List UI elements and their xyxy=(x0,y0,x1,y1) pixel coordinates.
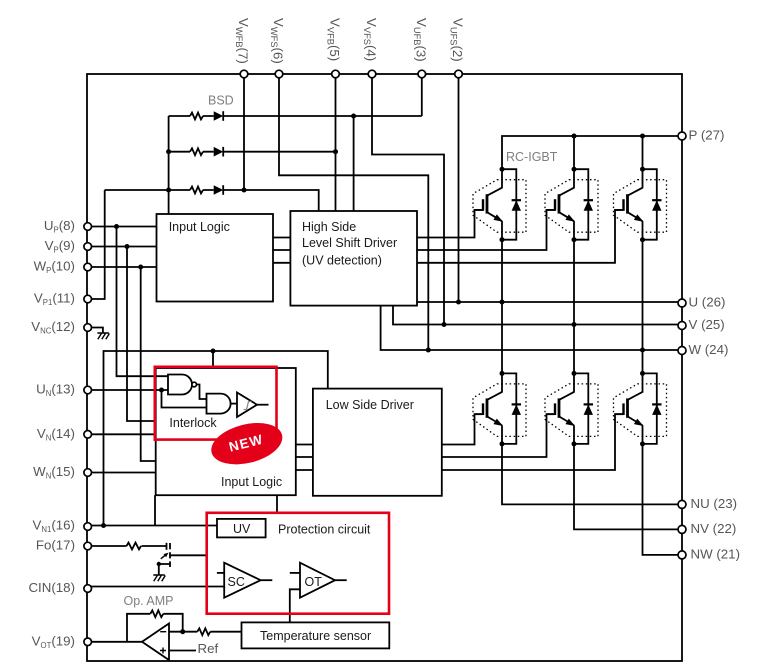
svg-text:UV: UV xyxy=(233,522,251,536)
outer package border xyxy=(87,74,682,661)
wire VP1(11) feed up to BSD rail xyxy=(88,190,105,299)
wire WP(10) to Input Logic xyxy=(88,266,157,268)
junction VUFS on U line xyxy=(456,300,461,305)
wire OT reference stub xyxy=(290,572,300,574)
wire low side gate W xyxy=(442,414,624,470)
wire V phase line to V(25) xyxy=(393,306,682,325)
svg-text:NW (21): NW (21) xyxy=(691,547,741,562)
wire op-amp feedback loop xyxy=(127,614,183,642)
svg-text:Input Logic: Input Logic xyxy=(169,220,230,234)
ground at VNC xyxy=(97,333,109,339)
pin NU(23) xyxy=(678,500,686,508)
block Input Logic (high side) xyxy=(157,214,274,302)
wire U low emitter to NU line xyxy=(502,444,682,505)
comparator SC xyxy=(224,563,260,598)
wire VVFB(5) column to High Side Driver xyxy=(335,74,337,211)
transistor Q2 high-side V RC-IGBT xyxy=(545,167,598,243)
wire WP column down to Input Logic (low) xyxy=(141,267,156,461)
NEW badge xyxy=(207,416,287,471)
comparator OT xyxy=(300,563,335,598)
block High Side Level Shift Driver U1 xyxy=(290,211,417,306)
wire BSD row3 xyxy=(105,190,319,211)
highlight box interlock (red) xyxy=(155,367,277,440)
transistor Q6 low-side W RC-IGBT xyxy=(614,371,667,447)
pin UN(13) xyxy=(84,386,92,394)
wire VN(14) to Input Logic xyxy=(88,433,156,435)
svg-text:U (26): U (26) xyxy=(689,295,726,310)
pin VOT(19) xyxy=(84,638,92,646)
wire VNC(12) to ground xyxy=(88,328,103,334)
pin WN(15) xyxy=(84,469,92,477)
svg-text:Fo(17): Fo(17) xyxy=(36,538,75,553)
wire VWFS(6) column to W phase xyxy=(279,74,428,350)
pin VP(9) xyxy=(84,243,92,251)
wire VWFB(7) column xyxy=(243,74,245,190)
junction WP column xyxy=(138,265,143,270)
svg-text:WN(15): WN(15) xyxy=(33,464,75,481)
pin VWFB(7) xyxy=(240,70,248,78)
svg-text:Temperature sensor: Temperature sensor xyxy=(260,629,371,643)
wire UP(8) to Input Logic xyxy=(88,226,157,228)
pin VN(14) xyxy=(84,431,92,439)
junction BSD rail row2 xyxy=(166,149,171,154)
wire drop to Input Logic top xyxy=(212,351,214,368)
pin P(27) xyxy=(678,132,686,140)
buffer schmitt trigger xyxy=(237,393,257,418)
wire VP column down to Input Logic (low) xyxy=(127,247,156,422)
transistor Q1 high-side U RC-IGBT xyxy=(473,167,526,243)
svg-text:WP(10): WP(10) xyxy=(34,259,75,276)
pin UP(8) xyxy=(84,223,92,231)
junction UN at NAND input xyxy=(159,388,164,393)
wire UN(13) into interlock xyxy=(88,389,168,391)
junction U phase column xyxy=(500,300,505,305)
svg-text:VP1(11): VP1(11) xyxy=(34,291,75,308)
svg-text:P (27): P (27) xyxy=(689,128,725,143)
resistor BSD row3 xyxy=(190,187,203,194)
node BSD rail vertical xyxy=(168,116,170,214)
block Low Side Driver U2 xyxy=(313,389,442,496)
wire W column top xyxy=(642,136,644,169)
gate AND interlock xyxy=(207,394,231,414)
svg-text:VOT(19): VOT(19) xyxy=(32,633,75,650)
pin VN1(16) xyxy=(84,523,92,531)
wire SC output stub xyxy=(261,579,273,581)
resistor op-amp feedback xyxy=(150,610,163,617)
wire VN1 supply rail to Input Logic and Low Side Driver xyxy=(104,351,328,526)
pin VVFB(5) xyxy=(332,70,340,78)
svg-text:RC-IGBT: RC-IGBT xyxy=(506,150,558,164)
block Input Logic (low side) xyxy=(156,368,296,495)
transistor Q4 low-side U RC-IGBT xyxy=(473,371,526,447)
junction BSD rail row3 xyxy=(166,188,171,193)
wire U phase line to U(26) xyxy=(417,301,682,303)
block UV detector xyxy=(217,519,266,538)
transistor Q3 high-side W RC-IGBT xyxy=(614,167,667,243)
wire buffer output stub xyxy=(257,404,269,406)
pin VP1(11) xyxy=(84,295,92,303)
pin VUFS(2) xyxy=(455,70,463,78)
wire P rail xyxy=(502,136,682,169)
junction BSD row2 to VVFB column xyxy=(333,149,338,154)
pin WP(10) xyxy=(84,263,92,271)
svg-text:VP(9): VP(9) xyxy=(45,238,75,255)
wire VN1(16) line to UV xyxy=(88,525,217,527)
pin U(26) xyxy=(678,299,686,307)
junction V phase column xyxy=(572,322,577,327)
gate NAND interlock xyxy=(168,375,197,395)
wire high side gate U xyxy=(417,210,483,238)
pin V(25) xyxy=(678,322,686,330)
resistor op-amp input xyxy=(197,628,210,635)
svg-text:CIN(18): CIN(18) xyxy=(28,580,75,595)
wire V low emitter to NV line xyxy=(574,444,682,530)
svg-text:UN(13): UN(13) xyxy=(36,382,75,399)
wire BSD row2 xyxy=(169,151,336,153)
svg-text:NU (23): NU (23) xyxy=(691,496,738,511)
wire U column mid segments xyxy=(501,240,503,374)
transistor Q5 low-side V RC-IGBT xyxy=(545,371,598,447)
pin NV(22) xyxy=(678,525,686,533)
junction VWFS on W line xyxy=(426,348,431,353)
wire high side gate V xyxy=(417,210,555,250)
wire op-amp inverting input xyxy=(169,631,242,633)
svg-text:OT: OT xyxy=(305,575,323,589)
svg-text:NV (22): NV (22) xyxy=(691,521,737,536)
pin VVFS(4) xyxy=(368,70,376,78)
junction VN1 rail to Input Logic xyxy=(211,349,216,354)
junction op-amp feedback xyxy=(180,629,185,634)
svg-text:SC: SC xyxy=(228,575,245,589)
svg-text:Input Logic: Input Logic xyxy=(221,475,282,489)
wire Input Logic bottom-left leg to VN1 line xyxy=(154,495,156,525)
op-amp U3 xyxy=(142,624,169,661)
wire NAND output to AND xyxy=(197,385,207,400)
wire AND output to buffer xyxy=(231,403,237,405)
transistor M1 Fo open-drain MOSFET xyxy=(157,543,207,575)
pin NW(21) xyxy=(678,551,686,559)
wire OT input from temperature sensor xyxy=(290,589,300,622)
wire CIN(18) to SC comparator xyxy=(88,586,225,588)
svg-text:Ref: Ref xyxy=(198,641,219,656)
svg-text:BSD: BSD xyxy=(208,94,234,108)
wire Input Logic bottom to protection circuit xyxy=(276,495,278,513)
junction UP column xyxy=(114,224,119,229)
junction VP column xyxy=(125,244,130,249)
svg-text:VNC(12): VNC(12) xyxy=(31,319,75,336)
wire VUFS(2) column to U phase xyxy=(458,74,460,302)
svg-text:High Side: High Side xyxy=(302,220,356,234)
wire BSD row1 xyxy=(169,115,422,117)
junction VN1 rail xyxy=(101,523,106,528)
wire WN(15) to Input Logic xyxy=(88,472,156,474)
junction P rail V column xyxy=(572,134,577,139)
wire W column mid segments xyxy=(642,240,644,374)
wire Fo(17) to gate resistor xyxy=(88,545,167,547)
diode BSD row2 xyxy=(214,147,224,157)
diode BSD row3 xyxy=(214,185,224,195)
svg-text:V (25): V (25) xyxy=(689,317,725,332)
pin VUFB(3) xyxy=(418,70,426,78)
wire low side gate U xyxy=(442,414,483,444)
wire VP(9) to Input Logic xyxy=(88,246,157,248)
wire UN branch to AND gate xyxy=(162,390,207,408)
wire op-amp output to VOT(19) xyxy=(88,641,142,643)
wire V column top xyxy=(573,136,575,169)
svg-text:(UV detection): (UV detection) xyxy=(302,254,382,268)
junction BSD row1 to driver xyxy=(351,114,356,119)
wire high side gate W xyxy=(417,210,624,263)
svg-text:Level Shift Driver: Level Shift Driver xyxy=(302,236,397,250)
wire W phase line to W(24) xyxy=(381,306,682,350)
svg-text:Low Side Driver: Low Side Driver xyxy=(326,398,414,412)
wire BSD row1 drop to High Side Driver xyxy=(353,116,355,211)
svg-text:UP(8): UP(8) xyxy=(44,218,75,235)
wire V column mid segments xyxy=(573,240,575,374)
wire VVFS(4) column to V phase xyxy=(372,74,444,325)
svg-text:VN1(16): VN1(16) xyxy=(33,518,76,535)
diode BSD row1 xyxy=(214,111,224,121)
resistor BSD row1 xyxy=(190,113,203,120)
block Temperature sensor xyxy=(242,622,390,648)
pin CIN(18) xyxy=(84,585,92,593)
pin VNC(12) xyxy=(84,324,92,332)
junction VVFS on V line xyxy=(442,322,447,327)
svg-text:Interlock: Interlock xyxy=(169,416,217,430)
pin VWFS(6) xyxy=(275,70,283,78)
pin W(24) xyxy=(678,347,686,355)
wire op-amp non-inverting input to Ref xyxy=(169,650,196,652)
wire rungs Input Logic to High Side Driver xyxy=(273,238,290,263)
svg-text:Protection circuit: Protection circuit xyxy=(278,523,371,537)
wire VUFB(3) column to BSD row1 xyxy=(421,74,423,116)
wire OT output stub xyxy=(335,579,347,581)
svg-text:Op. AMP: Op. AMP xyxy=(124,594,174,608)
wire UP column down to interlock NAND input xyxy=(117,227,169,377)
junction BSD row3 at VWFB column xyxy=(242,188,247,193)
ground at Fo MOSFET xyxy=(153,575,165,581)
wire W low emitter to NW line xyxy=(643,444,683,555)
highlight box protection circuit (red) xyxy=(207,513,389,614)
junction W phase column xyxy=(640,348,645,353)
wire SC reference stub xyxy=(217,572,224,574)
junction P rail W column xyxy=(640,134,645,139)
resistor Fo pull xyxy=(127,543,142,550)
wire low side gate V xyxy=(442,414,555,457)
resistor BSD row2 xyxy=(190,148,203,155)
wire rungs Input Logic (low) to Low Side Driver xyxy=(296,445,313,471)
svg-text:VN(14): VN(14) xyxy=(37,426,75,443)
svg-text:W (24): W (24) xyxy=(689,342,729,357)
pin Fo(17) xyxy=(84,542,92,550)
